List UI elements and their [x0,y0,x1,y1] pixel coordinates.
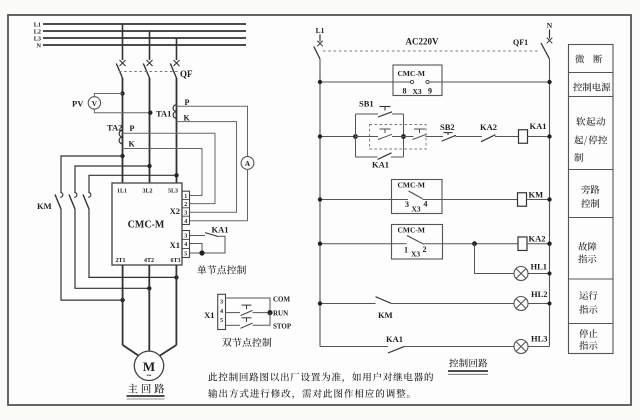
legend divider 3 [569,169,614,171]
wire rung3 left [320,199,393,201]
wire KA1 to X1-5 loop [190,236,226,253]
internal contact 1-2 blade [407,236,424,245]
wire bus to QF pole 3 [176,38,178,60]
wire PV top lead [94,94,122,97]
breaker QF pole 3 contact mark [174,60,180,66]
node KM tap phase3 [174,173,178,177]
wire rung4 right [443,243,518,245]
caption single-node control 单节点控制 [197,265,246,274]
svg-text:5: 5 [220,318,223,324]
legend cell 起/停控 line2 [574,135,607,145]
wire KM pole 2 upper [75,166,150,193]
svg-text:3L2: 3L2 [142,189,152,195]
bus line L3 [43,37,246,39]
contactor KM aux contact blade [376,297,392,304]
relay coil KA1 [519,130,528,144]
svg-text:L1: L1 [316,26,325,35]
svg-text:PV: PV [72,99,84,109]
svg-text:3: 3 [184,211,187,217]
svg-text:CMC-M: CMC-M [398,181,426,190]
node KM pole 3 joins T-drop [174,275,178,279]
wire QF pole2 to 3L2 [149,78,151,183]
legend cell 故障指示 line2 [578,255,596,264]
svg-text:4: 4 [220,309,223,315]
svg-text:KA1: KA1 [386,334,403,344]
svg-text:STOP: STOP [273,322,292,330]
svg-text:X3: X3 [413,87,422,96]
wire X1-3 to COM [226,298,271,313]
wire rung2 right [528,136,550,138]
bus line L1 [43,23,246,25]
wire rung5 left [320,303,376,305]
contactor KM pole 2 contact arc [74,192,77,197]
terminal strip X1 box [182,231,190,258]
svg-text:HL3: HL3 [531,334,548,344]
node rung1 right rail [547,80,551,84]
contactor KM pole 3 blade [83,195,89,210]
legend divider 4 [569,217,614,219]
left rail L1 [319,59,321,347]
wire bus to QF pole 2 [149,31,151,60]
breaker QF1 pole N blade [541,43,550,59]
svg-text:KA2: KA2 [480,122,497,132]
contactor KM pole 2 blade [69,195,75,210]
node HL1 branch [472,241,477,246]
wire HL1 branch [475,244,515,274]
svg-text:A: A [245,160,251,168]
svg-text:3: 3 [220,299,223,305]
bus line L2 [43,30,246,32]
breaker QF pole 1 blade [116,64,122,79]
relay contact KA1 latch blade [378,153,392,160]
CMC-M control box X3 3-4 [392,180,443,214]
node rung1 left rail [318,80,322,84]
svg-text:X2: X2 [170,206,180,216]
wire X1-3 lead [190,235,206,237]
wire rung2 left [320,136,356,138]
pushbutton RUN [241,305,253,316]
phantom pushbutton 1 [378,129,392,140]
svg-text:P: P [185,98,190,107]
legend cell 旁路 [581,185,599,194]
svg-text:QF1: QF1 [513,38,528,47]
svg-text:X3: X3 [411,250,420,259]
voltmeter PV circle [88,97,100,109]
note line 1 [208,372,433,382]
svg-text:KA1: KA1 [530,121,547,131]
wire X1-4 jumper [190,244,203,254]
lamp HL3 [514,340,528,354]
wire KM pole 3 lower [89,209,176,277]
terminal circle 8 [410,80,413,83]
wire SB1 branch right vertical [403,114,405,157]
svg-text:1: 1 [404,246,408,255]
legend divider 5 [569,278,614,280]
wire STOP button to bus [253,313,271,326]
svg-text:SB2: SB2 [440,122,455,132]
wire rung2 mid b [392,136,414,138]
wire inside box2 right [423,199,443,201]
wire X1-4 to RUN button [226,312,241,314]
terminal strip X2 box [182,191,190,224]
node rung3 right rail [547,197,551,201]
legend cell 运行指示 line2 [579,305,597,314]
node KM tap phase1 [120,154,124,158]
caption two-node control 双节点控制 [222,338,271,347]
wire KM pole 3 upper [89,175,177,193]
breaker QF pole 2 contact mark [147,60,153,66]
right rail N [549,59,551,347]
node rung4 left rail [318,242,322,246]
note line 2 [208,389,409,399]
svg-text:CMC-M: CMC-M [398,226,426,235]
wire ammeter to X2-4 [190,169,248,220]
node rung4 right rail [547,242,551,246]
svg-text:N: N [547,21,553,30]
svg-text:2: 2 [423,245,427,254]
legend divider 2 [569,96,614,98]
svg-text:5L3: 5L3 [168,189,178,195]
svg-text:X1: X1 [204,310,214,320]
wire KA1 bottom branch right [391,156,404,158]
svg-text:HL1: HL1 [531,262,548,272]
caption 控制回路 underline heavy [448,370,488,372]
wire SB1 top branch left [356,113,379,115]
svg-text:P: P [130,124,135,133]
wire X1-5 to STOP button [226,324,241,326]
wire rung5 mid [391,303,514,305]
svg-text:1: 1 [184,194,187,200]
node rung5 left rail [318,301,322,305]
internal contact 3-4 blade [409,191,423,199]
wire KA1 bottom branch left [356,156,378,158]
wire rung2 mid d [456,136,483,138]
wire rung2 mid a [356,136,379,138]
breaker QF1 linkage dashed [323,50,538,52]
terminal strip X2 divider 1 [182,199,190,201]
contactor KM pole 1 blade [55,195,61,210]
wire TA1 K to X2-3 [177,122,237,213]
CMC-M control box X3 8-9 [393,65,442,96]
svg-text:~: ~ [147,371,152,381]
caption control circuit 控制回路 [449,358,487,367]
svg-text:CMC-M: CMC-M [398,69,426,78]
svg-text:6T3: 6T3 [170,258,180,264]
svg-text:SB1: SB1 [359,99,374,109]
pushbutton SB1 [378,107,392,118]
legend divider 6 [569,323,614,325]
svg-text:1L1: 1L1 [117,189,127,195]
svg-text:4: 4 [424,200,428,209]
wire bus to QF pole 1 [122,24,124,60]
legend cell 软起动 line1 [576,117,605,126]
wire rung1 left [320,81,411,83]
node X1-4/X1-5 junction [199,250,204,255]
wire KM pole 1 lower [61,209,123,300]
relay contact KA2 blade [481,135,496,142]
svg-text:9: 9 [428,87,432,96]
legend cell 停止指示 line2 [579,341,597,350]
svg-text:L3: L3 [34,36,41,43]
wire TA2 P to X2-2 [123,133,216,203]
wire SB1 top branch right [392,113,404,115]
legend cell 故障 [578,242,596,251]
legend divider 1 [569,72,614,74]
svg-text:KM: KM [378,310,393,320]
breaker QF1 pole N mark [547,38,553,44]
breaker QF pole 3 blade [170,64,176,79]
svg-text:KM: KM [529,190,544,200]
svg-text:L1: L1 [34,22,41,29]
terminal strip X1 divider 1 [182,239,190,241]
svg-text:3: 3 [184,233,187,239]
wire rung3 right [442,199,517,201]
wire HL2 to rail [528,303,550,305]
relay contact KA1 blade single-node [205,233,219,237]
breaker QF pole 1 contact mark [120,60,126,66]
breaker QF1 pole L1 mark [317,41,323,47]
node KM pole 2 joins T-drop [147,286,151,290]
svg-text:4: 4 [184,219,187,225]
lamp HL1 [514,267,528,281]
contactor KM pole 3 contact arc [88,192,91,197]
wire rung1 right [429,81,550,83]
svg-text:TA2: TA2 [107,123,122,133]
svg-text:TA1: TA1 [156,109,171,119]
svg-text:K: K [129,140,136,149]
wire HL3 to rail [528,346,550,348]
svg-text:L2: L2 [34,29,41,36]
wire rung2 mid e [495,136,518,138]
bus line N [43,44,246,46]
node RUN junction [267,310,272,315]
contactor KM pole 1 contact arc [60,192,63,197]
svg-text:KA2: KA2 [529,234,546,244]
pushbutton STOP [241,318,253,329]
wire PV bottom lead [94,109,150,113]
svg-text:KA1: KA1 [372,160,389,170]
legend cell 旁路控制 line2 [581,199,599,208]
wire SB1 branch left vertical [355,114,357,157]
node HL1 rail [548,272,552,276]
svg-text:HL2: HL2 [531,289,548,299]
node PV tap on L2 phase [148,111,152,115]
wire HL1 to rail [528,273,550,275]
terminal strip X2 divider 2 [182,207,190,209]
wire rung3 coil to rail [527,199,550,201]
svg-text:3: 3 [405,200,409,209]
wire rung4 left [320,243,393,245]
node rung2 right rail [547,134,551,138]
CMC-M control box X3 1-2 [392,225,443,260]
node KM pole 1 joins T-drop [120,298,124,302]
caption 主回路 underline heavy [127,395,165,397]
svg-text:RUN: RUN [273,310,288,318]
wire QF pole1 to 1L1 [122,78,124,183]
wire rung6 left [320,346,388,348]
svg-text:CMC-M: CMC-M [128,220,165,231]
node SB1 branch left [353,134,358,139]
legend cell 微断 [575,55,602,64]
terminal circle 9 [426,80,429,83]
legend cell 控制电源 [573,83,610,92]
node PV tap on L1 phase [120,91,124,95]
svg-text:V: V [92,100,98,108]
terminal strip X1 divider 2 [182,248,190,250]
svg-text:KM: KM [37,201,52,211]
svg-text:5: 5 [184,251,187,257]
svg-text:AC220V: AC220V [406,37,439,47]
svg-text:COM: COM [273,296,291,304]
wire 2T1 to motor [123,345,139,356]
legend cell 停止 [579,329,597,338]
pushbutton SB2 [442,133,457,142]
relay contact KA1 nc blade [388,347,404,353]
dashed option box [370,125,427,150]
breaker QF1 pole L1 blade [314,47,320,60]
svg-text:KA1: KA1 [212,225,229,235]
wire RUN button to bus [253,312,271,314]
svg-text:N: N [37,43,42,50]
svg-text:8: 8 [403,87,407,96]
wire rung6 mid [404,346,514,348]
svg-text:2T1: 2T1 [115,258,125,264]
caption 主回路 underline light [127,398,165,400]
wire rung4 coil to rail [527,243,550,245]
wire inside box3 right [424,243,443,245]
node rung5 right rail [548,302,552,306]
wire 6T3 to motor [160,345,177,356]
soft starter CMC-M main box [112,183,182,265]
legend cell 运行 [579,291,597,300]
ammeter A circle [241,157,254,170]
relay coil KA2 [518,237,527,251]
wire inside box2 left [393,199,408,201]
svg-text:X1: X1 [170,240,180,250]
svg-text:4T2: 4T2 [144,258,154,264]
breaker QF pole 2 blade [143,64,149,79]
wire 6T3 drop [175,265,177,345]
wire 4T2 drop [148,265,150,351]
node KM tap phase2 [147,164,151,168]
motor M circle [134,351,163,380]
svg-text:QF: QF [180,69,193,79]
wire L1 stem [319,35,321,42]
node SB1 branch right [401,134,406,139]
legend cell 制 line3 [574,153,583,162]
caption main circuit 主回路 [128,384,164,394]
wire QF pole3 to 5L3 [176,78,178,183]
wire N stem [549,30,551,39]
wire TA1 P to ammeter to X2-4 [177,106,248,156]
wire TA2 K to X2-1 [123,149,203,196]
lamp HL2 [514,297,528,311]
svg-text:X3: X3 [412,205,421,214]
wire KM pole 1 upper [61,156,123,193]
wire rung2 mid c [426,136,444,138]
wire KM pole 2 lower [75,209,149,288]
node rung3 left rail [318,197,322,201]
relay coil KM [518,193,527,207]
current transformer TA1 arcs [173,105,176,119]
breaker QF linkage dashed line [119,71,180,73]
node rung2 left rail [318,134,322,138]
current transformer TA2 arcs [119,130,122,144]
svg-text:2: 2 [184,202,187,208]
caption 控制回路 underline light [448,373,488,375]
wire inside box3 left [393,243,407,245]
terminal block X1 two-node box [218,294,226,329]
terminal strip X2 divider 3 [182,215,190,217]
legend column box [569,45,614,354]
wire 2T1 drop [122,265,124,345]
svg-text:4: 4 [184,242,187,248]
phantom pushbutton 2 [413,129,427,140]
